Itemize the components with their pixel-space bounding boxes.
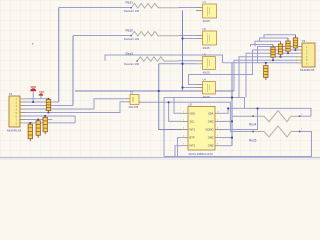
wire P1 pin2 row <box>26 101 59 103</box>
wire P2 pin2 net loop to U4 <box>189 50 298 85</box>
svg-text:ADXL345BCCZ-R: ADXL345BCCZ-R <box>189 152 214 156</box>
wire R1 to U1 pin1 <box>179 7 197 9</box>
IC U5 ADXL345 <box>181 103 222 156</box>
wire P1 pin6 row <box>26 116 75 123</box>
wire SDA pin riser <box>222 108 228 113</box>
vertical resistor RH near P1 <box>46 99 50 113</box>
svg-text:VDDIO: VDDIO <box>205 128 213 132</box>
vertical resistor RV-B <box>278 41 282 57</box>
wire H97 to stair <box>164 98 245 109</box>
vertical resistor RV-C <box>286 38 290 53</box>
wire R1 net horizontal <box>59 7 131 9</box>
wire R2 net horizontal <box>73 35 131 37</box>
svg-text:Resistor 100: Resistor 100 <box>124 9 140 13</box>
wire R4 right lead wire <box>300 115 312 117</box>
svg-text:4N25: 4N25 <box>203 19 211 23</box>
svg-text:INT1: INT1 <box>190 128 196 132</box>
switch S1 <box>124 91 139 110</box>
wire P2 pin5 net riser <box>234 60 297 91</box>
resistor R2 <box>124 29 179 42</box>
svg-text:U5: U5 <box>189 103 193 107</box>
svg-text:GND: GND <box>208 136 214 140</box>
wire GND vertical x232 <box>231 63 233 146</box>
svg-text:S1: S1 <box>130 91 134 95</box>
opto U4 <box>196 78 215 99</box>
vertical resistor RL2 <box>36 120 40 138</box>
wire SCL drop <box>169 102 181 121</box>
svg-text:VDD: VDD <box>31 85 37 89</box>
wire VCC stem <box>40 96 42 99</box>
svg-text:INT2: INT2 <box>190 144 196 148</box>
svg-text:VDD: VDD <box>190 111 196 115</box>
wire U5 GND stub 1 <box>222 120 232 122</box>
wire RV-A top <box>251 45 274 47</box>
wire long horizontal y91 <box>75 90 234 92</box>
svg-text:SDA: SDA <box>208 111 214 115</box>
opto U2 <box>196 27 217 50</box>
wire VDDIO riser <box>257 108 259 129</box>
wire VDD stem <box>32 91 34 102</box>
wire R1 net vertical V1 <box>58 8 60 103</box>
svg-text:P1: P1 <box>9 92 13 96</box>
wire R3 to U3 pin1 <box>179 60 197 62</box>
wire P1 pin4 row to S1 <box>26 99 124 109</box>
wire P2 pin3 net riser <box>246 53 297 97</box>
svg-text:Resistor 100: Resistor 100 <box>124 37 140 41</box>
resistor R1 <box>124 1 179 14</box>
wire U4 pin2 branch <box>183 87 197 89</box>
power port VDD <box>30 85 36 92</box>
wire P1 pin1 row <box>26 98 49 100</box>
wire R2 net vertical V2 <box>72 36 74 106</box>
svg-text:4N25: 4N25 <box>203 70 211 74</box>
wire R2 to U2 pin1 <box>179 35 197 37</box>
wire R3 upper run <box>105 55 223 63</box>
wire P2 pin4 net riser <box>239 57 297 98</box>
opto U1 <box>196 0 217 23</box>
wire U5 pin5 drop <box>175 146 181 157</box>
wire P2 pin6 row <box>223 62 298 64</box>
wire R5 right loop bottom <box>164 132 312 157</box>
svg-text:P2: P2 <box>302 39 306 43</box>
sheet background <box>0 0 320 158</box>
svg-text:Res4: Res4 <box>249 122 257 126</box>
resistor R4 bottom right <box>249 111 303 127</box>
wire P1 pin7 row <box>26 119 52 121</box>
connector P2 <box>296 39 315 72</box>
wire H2 S1 to R5 left <box>139 102 253 131</box>
wire lone resistor top lead <box>265 63 267 66</box>
connector P1 <box>7 92 26 132</box>
wire P1 pin8 row <box>26 122 75 124</box>
sheet bottom edge <box>0 158 320 160</box>
wire U5 pin4 drop <box>178 138 182 157</box>
power port VCC <box>39 90 45 96</box>
wire R4 left <box>232 115 253 117</box>
svg-text:Res5: Res5 <box>249 138 257 142</box>
svg-text:Res1: Res1 <box>126 1 134 5</box>
vertical resistor RL1 <box>28 123 32 141</box>
svg-text:Res2: Res2 <box>126 29 134 33</box>
wire VDDIO stub <box>222 129 258 131</box>
svg-text:U4: U4 <box>203 78 207 82</box>
svg-text:VCC: VCC <box>39 90 45 94</box>
svg-text:SCL: SCL <box>190 119 196 123</box>
wire SDA row to R4 right <box>228 108 311 116</box>
wire U3 pin2 branch <box>159 63 196 65</box>
wire P2 pin1 net <box>258 47 298 63</box>
vertical resistor RV-A <box>271 45 275 61</box>
svg-text:MHDR1X8: MHDR1X8 <box>300 68 315 72</box>
opto U3 <box>196 53 215 75</box>
wire RV-D top <box>264 35 296 38</box>
svg-text:Resistor 100: Resistor 100 <box>124 62 140 66</box>
wire U5 GND stub 3 <box>222 145 232 147</box>
svg-text:GND: GND <box>208 119 214 123</box>
wire INT1 vertical <box>159 64 181 130</box>
svg-text:GND: GND <box>208 144 214 148</box>
svg-text:U2: U2 <box>203 27 207 31</box>
svg-text:BTP: BTP <box>190 136 195 140</box>
wire left loop vertical <box>163 98 165 157</box>
wire U2 pin2 branch <box>183 38 197 40</box>
wire U5 GND stub 2 <box>222 137 232 139</box>
svg-text:SW-PB: SW-PB <box>129 105 139 109</box>
svg-text:MHDR1X8: MHDR1X8 <box>7 128 22 132</box>
vertical resistor RV-D <box>293 35 297 50</box>
vertical resistor RL3 <box>43 116 47 134</box>
wire RV-C top <box>260 38 289 41</box>
vertical resistor lone RV-E <box>264 66 268 81</box>
wire boxes pin2 bus x182.5 <box>182 11 184 92</box>
resistor R3 <box>124 52 179 66</box>
svg-text:Res3: Res3 <box>126 52 134 56</box>
wire P1 pin5 row to S1 <box>26 102 124 113</box>
resistor R5 bottom right <box>249 126 303 142</box>
svg-text:U1: U1 <box>203 0 207 4</box>
svg-text:4N25: 4N25 <box>203 95 211 99</box>
svg-text:4N25: 4N25 <box>203 46 211 50</box>
svg-text:U3: U3 <box>203 53 207 57</box>
wire RV-B top <box>255 41 281 46</box>
wire P1 pin3 row <box>26 105 73 107</box>
wire V174 to U5 VDD <box>174 98 181 114</box>
